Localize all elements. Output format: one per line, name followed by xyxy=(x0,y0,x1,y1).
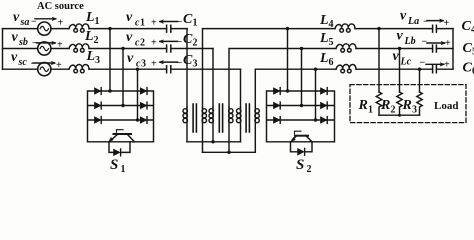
svg-text:−: − xyxy=(422,37,428,48)
transformer T2 xyxy=(209,104,233,152)
label S2 xyxy=(296,157,312,175)
diode D6 xyxy=(140,117,147,124)
svg-text:S: S xyxy=(296,157,304,173)
node load tap row b xyxy=(398,47,401,92)
svg-text:−: − xyxy=(423,17,429,28)
switch S2 antiparallel diode xyxy=(291,142,313,155)
node bridge1 row taps xyxy=(108,89,139,121)
diode D2 xyxy=(95,102,102,109)
wire primary common xyxy=(187,140,241,143)
node output row c to rectifier2 xyxy=(314,68,317,121)
label v_sa with polarity arrow xyxy=(13,10,64,29)
svg-text:4: 4 xyxy=(329,19,334,30)
rectifier bridge 2 frame xyxy=(267,91,335,142)
svg-text:Load: Load xyxy=(434,100,458,112)
svg-text:R: R xyxy=(402,98,412,113)
svg-text:sb: sb xyxy=(18,37,28,48)
svg-text:−: − xyxy=(177,37,183,48)
label v_c3 and C3 polarity arrow xyxy=(127,51,183,70)
AC source Vsa xyxy=(38,22,51,35)
diode D3 xyxy=(95,117,102,124)
label v_La and C4 polarity arrow xyxy=(400,9,450,30)
diode D11 xyxy=(321,102,328,109)
svg-text:1: 1 xyxy=(95,16,100,27)
wire load common xyxy=(379,114,420,117)
resistor R3 xyxy=(417,92,422,115)
label v_Lb and C5 polarity arrow xyxy=(397,29,452,50)
svg-text:1: 1 xyxy=(140,18,145,29)
capacitor C5 xyxy=(433,45,453,52)
switch S1 IGBT xyxy=(109,130,135,142)
svg-text:C: C xyxy=(183,32,193,47)
svg-text:v: v xyxy=(127,51,134,66)
node output row b to rectifier2 xyxy=(300,47,303,106)
AC source Vsb xyxy=(38,42,51,55)
inductor L6 xyxy=(336,65,356,73)
wire transformer T3 secondary up to output row c xyxy=(255,69,432,107)
capacitor C6 xyxy=(433,66,453,73)
svg-text:+: + xyxy=(444,18,450,29)
resistor R2 xyxy=(397,92,402,115)
svg-text:1: 1 xyxy=(368,105,373,116)
svg-text:C: C xyxy=(463,41,473,56)
svg-text:−: − xyxy=(177,58,183,69)
svg-text:C: C xyxy=(183,53,193,68)
svg-text:L: L xyxy=(85,10,95,25)
svg-text:+: + xyxy=(151,38,157,49)
wire transformer T2 secondary up to output row b xyxy=(229,49,433,108)
inductor L4 xyxy=(335,24,355,32)
node load tap row c xyxy=(418,68,421,93)
svg-text:L: L xyxy=(319,51,329,66)
node output row a to rectifier2 xyxy=(286,27,289,91)
wire secondary common xyxy=(203,151,256,154)
transformer T1 xyxy=(183,104,207,152)
diode D1 xyxy=(95,88,102,95)
svg-text:6: 6 xyxy=(329,57,334,68)
label v_c1 and C1 polarity arrow xyxy=(126,10,183,29)
svg-text:2: 2 xyxy=(391,105,396,116)
diode D12 xyxy=(321,117,328,124)
svg-text:R: R xyxy=(358,98,368,113)
label Load xyxy=(434,100,458,112)
svg-text:v: v xyxy=(393,49,400,64)
label v_Lc and C6 polarity arrow xyxy=(393,49,451,71)
diode D8 xyxy=(274,102,281,109)
svg-text:5: 5 xyxy=(329,37,334,48)
label v_sb with polarity arrow xyxy=(12,30,64,51)
svg-text:sa: sa xyxy=(20,17,30,28)
svg-text:+: + xyxy=(58,18,64,29)
svg-text:L: L xyxy=(319,13,329,28)
svg-text:2: 2 xyxy=(140,38,145,49)
svg-text:v: v xyxy=(11,50,18,65)
node phase b to rectifier1 xyxy=(121,47,124,106)
load dashed box xyxy=(350,85,466,123)
svg-text:v: v xyxy=(126,10,133,25)
svg-text:+: + xyxy=(57,40,63,51)
svg-text:+: + xyxy=(444,60,450,71)
svg-text:3: 3 xyxy=(141,59,146,70)
capacitor C4 xyxy=(433,25,453,32)
svg-text:3: 3 xyxy=(412,105,417,116)
label v_sc with polarity arrow xyxy=(11,50,62,71)
wire phase c input row xyxy=(3,68,167,70)
svg-text:1: 1 xyxy=(121,164,126,175)
svg-text:2: 2 xyxy=(307,164,312,175)
inductor L1 xyxy=(69,24,89,32)
svg-text:sc: sc xyxy=(18,57,28,68)
svg-text:v: v xyxy=(400,9,407,24)
capacitor C3 xyxy=(167,66,241,73)
node bridge2 row taps xyxy=(286,89,317,121)
svg-text:2: 2 xyxy=(94,35,99,46)
svg-text:3: 3 xyxy=(95,55,100,66)
transformer T3 xyxy=(237,104,260,152)
svg-text:v: v xyxy=(397,29,404,44)
svg-text:+: + xyxy=(56,60,62,71)
svg-text:+: + xyxy=(151,59,157,70)
inductor L3 xyxy=(69,65,89,73)
svg-text:S: S xyxy=(110,157,118,173)
diode D5 xyxy=(140,102,147,109)
capacitor C1 xyxy=(167,25,187,32)
capacitor C2 xyxy=(167,45,213,52)
rectifier bridge 1 frame xyxy=(88,91,154,142)
svg-text:1: 1 xyxy=(193,18,198,29)
AC source Vsc xyxy=(38,63,51,76)
svg-text:Lb: Lb xyxy=(404,36,416,47)
svg-text:v: v xyxy=(12,30,19,45)
svg-text:+: + xyxy=(151,18,157,29)
diode D4 xyxy=(140,88,147,95)
svg-text:2: 2 xyxy=(193,38,198,49)
inductor L2 xyxy=(69,44,89,52)
svg-text:La: La xyxy=(407,16,419,27)
svg-text:v: v xyxy=(13,10,20,25)
svg-text:C: C xyxy=(462,19,472,34)
wire phase b input row xyxy=(3,48,167,50)
svg-text:C: C xyxy=(463,61,473,76)
svg-text:R: R xyxy=(380,98,390,113)
svg-text:L: L xyxy=(84,29,94,44)
svg-text:+: + xyxy=(445,38,451,49)
wire C1 output down to transformer T1 primary xyxy=(186,29,188,107)
resistor R1 xyxy=(376,92,381,115)
node phase a to rectifier1 xyxy=(108,27,111,91)
svg-text:−: − xyxy=(177,17,183,28)
AC source title xyxy=(37,1,84,12)
svg-text:C: C xyxy=(183,12,193,27)
node load tap row a xyxy=(377,27,380,92)
svg-text:v: v xyxy=(126,30,133,45)
wire output neutral bus xyxy=(452,29,454,70)
label S1 xyxy=(110,157,126,175)
wire C2 output down to transformer T2 primary xyxy=(212,49,214,108)
inductor L5 xyxy=(336,44,356,52)
wire left neutral bus xyxy=(2,29,4,70)
switch S1 antiparallel diode xyxy=(109,142,130,156)
switch S2 IGBT xyxy=(291,131,312,142)
diode D7 xyxy=(274,88,281,95)
wire transformer T1 secondary up to output row a xyxy=(203,29,433,107)
svg-text:3: 3 xyxy=(193,59,198,70)
diode D9 xyxy=(274,117,281,124)
svg-text:AC source: AC source xyxy=(37,1,84,12)
wire phase a input row xyxy=(3,28,167,30)
svg-text:−: − xyxy=(420,58,426,69)
svg-text:L: L xyxy=(86,49,96,64)
diode D10 xyxy=(321,88,328,95)
svg-text:L: L xyxy=(319,31,329,46)
svg-text:−: − xyxy=(31,59,37,70)
svg-text:Lc: Lc xyxy=(400,57,412,68)
node phase c to rectifier1 xyxy=(136,68,139,121)
wire C3 output down to transformer T3 primary xyxy=(240,69,242,107)
label v_c2 and C2 polarity arrow xyxy=(126,30,183,49)
